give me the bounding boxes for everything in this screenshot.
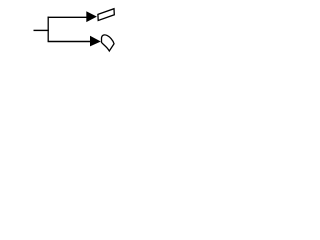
symbol: tilted card (top) (98, 9, 114, 21)
wire: input stub (34, 29, 49, 31)
symbol: document (bottom) (102, 35, 115, 51)
wire: vertical bus (47, 17, 49, 42)
wire: top branch (48, 16, 87, 18)
wire: bottom branch (48, 41, 91, 43)
arrowhead bottom (90, 36, 101, 47)
arrowhead top (86, 11, 97, 22)
